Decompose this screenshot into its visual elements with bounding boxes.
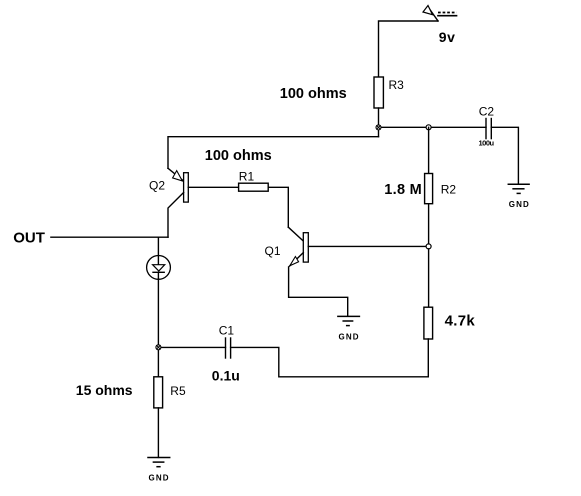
svg-text:C2: C2 <box>479 104 495 118</box>
transistor Q1 (NPN) <box>288 227 426 316</box>
wire R1 to Q1 collector <box>268 187 288 227</box>
svg-text:4.7k: 4.7k <box>445 312 476 329</box>
ground (Q1 emitter) <box>338 316 360 325</box>
wire R3 bottom to node <box>378 108 380 137</box>
resistor R3 <box>374 77 383 108</box>
svg-text:15 ohms: 15 ohms <box>76 382 133 398</box>
node junction J2 <box>426 125 431 130</box>
svg-text:OUT: OUT <box>13 230 45 247</box>
svg-text:R1: R1 <box>239 169 255 183</box>
svg-text:1.8 M: 1.8 M <box>384 182 422 198</box>
svg-text:0.1u: 0.1u <box>212 368 240 384</box>
wire J3 down to 4.7k <box>428 249 430 307</box>
svg-text:C1: C1 <box>219 323 235 337</box>
svg-text:Q1: Q1 <box>265 244 281 258</box>
wire R2 to node J3 <box>428 204 430 247</box>
wire C2 right to ground <box>491 127 518 184</box>
svg-text:100 ohms: 100 ohms <box>280 86 347 102</box>
capacitor C2 <box>486 119 491 139</box>
svg-text:GND: GND <box>339 332 360 341</box>
node junction J3 <box>426 244 431 249</box>
resistor R4 4.7k <box>424 307 433 339</box>
svg-text:GND: GND <box>149 473 170 482</box>
resistor R5 <box>154 377 163 408</box>
resistor R1 <box>239 183 269 191</box>
svg-text:GND: GND <box>509 200 530 209</box>
wire diode to node J4 <box>157 279 159 377</box>
svg-text:100 ohms: 100 ohms <box>205 148 272 164</box>
ground (R5) <box>148 458 170 467</box>
svg-text:R3: R3 <box>389 78 405 92</box>
node junction J1 <box>376 125 381 130</box>
svg-text:R2: R2 <box>441 183 457 197</box>
wire C1 left to node J4 <box>158 346 225 348</box>
ground (C2) <box>508 184 529 193</box>
transistor Q2 (PNP) <box>168 168 239 237</box>
node junction J4 <box>156 345 161 350</box>
svg-text:100u: 100u <box>479 139 495 148</box>
svg-text:9v: 9v <box>439 29 456 45</box>
wire 4.7k bottom loop to C1 <box>231 339 429 377</box>
wire J2 down to R2 <box>428 127 430 173</box>
svg-text:R5: R5 <box>170 384 186 398</box>
wire main rail to C2 <box>379 126 487 128</box>
wire OUT <box>51 236 168 238</box>
svg-text:Q2: Q2 <box>149 178 165 192</box>
wire rail to Q2 emitter <box>168 137 379 169</box>
wire R5 to ground <box>157 408 159 458</box>
diode D1 (in circle) <box>147 237 171 279</box>
capacitor C1 <box>226 338 231 358</box>
resistor R2 <box>425 174 433 204</box>
power supply V+ symbol <box>379 6 457 78</box>
